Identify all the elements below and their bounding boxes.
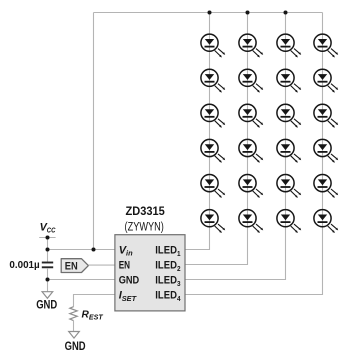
wire EN flag to U1 EN pin [88,264,115,266]
wire Vin node down to capacitor [47,250,49,262]
IC U1 ZD3315 body [115,235,185,311]
input flag EN [61,259,88,273]
wire GND node down to ground [47,280,49,292]
wire resistor to ground [73,321,75,332]
svg-text:ILED3: ILED3 [155,275,180,288]
wire LED column 4 to ILED4 [185,13,323,295]
junction dot at VCC bar [46,236,50,240]
LED column 2 row 5 [239,175,263,198]
wire LED column 2 to ILED2 [185,13,248,265]
svg-text:ILED1: ILED1 [155,244,180,257]
LED column 3 row 5 [277,175,301,198]
junction column 1 top [208,11,212,15]
LED column 1 row 2 [201,69,225,92]
svg-text:GND: GND [119,275,140,287]
LED column 4 row 2 [314,69,338,92]
LED column 3 row 4 [277,139,301,162]
LED column 4 row 3 [314,104,338,127]
svg-text:VCC: VCC [40,221,56,234]
LED column 3 row 3 [277,104,301,127]
wire left vertical bus [93,13,95,250]
svg-text:GND: GND [65,340,86,353]
capacitor C1 0.001u [42,263,53,268]
wire GND node to U1 GND pin [48,279,115,281]
LED column 2 row 1 [239,34,263,57]
junction dot left bus on Vin wire [92,248,96,252]
LED column 1 row 6 [201,210,225,233]
LED column 3 row 1 [277,34,301,57]
junction dot Vin node [46,248,50,252]
wire top supply bus [94,12,323,14]
svg-text:REST: REST [82,310,104,322]
LED column 2 row 2 [239,69,263,92]
svg-text:ZD3315: ZD3315 [126,204,165,218]
junction column 2 top [246,11,250,15]
LED column 1 row 3 [201,104,225,127]
svg-text:EN: EN [119,260,130,272]
LED column 4 row 1 [314,34,338,57]
svg-text:0.001µ: 0.001µ [9,260,39,271]
LED column 3 row 6 [277,210,301,233]
LED column 3 row 2 [277,69,301,92]
svg-text:GND: GND [36,299,57,312]
wire U1 ISET pin to resistor [74,295,115,307]
ground symbol GND1 [42,292,53,299]
wire LED column 3 to ILED3 [185,13,286,280]
ground symbol GND2 [69,332,80,339]
svg-text:(ZYWYN): (ZYWYN) [125,220,164,234]
wire LED column 1 to ILED1 [185,13,210,250]
wire VCC down to Vin node [47,238,49,250]
junction column 3 top [284,11,288,15]
LED column 2 row 6 [239,210,263,233]
wire capacitor to GND node [47,268,49,280]
svg-text:EN: EN [65,260,78,272]
LED column 2 row 4 [239,139,263,162]
resistor REST [70,307,77,321]
LED column 1 row 4 [201,139,225,162]
LED column 4 row 4 [314,139,338,162]
LED column 4 row 5 [314,175,338,198]
VCC terminal bar [39,237,55,239]
LED column 4 row 6 [314,210,338,233]
junction dot GND node [46,278,50,282]
LED column 2 row 3 [239,104,263,127]
wire Vin node to U1 Vin pin [48,249,115,251]
LED column 1 row 5 [201,175,225,198]
svg-text:ILED2: ILED2 [155,260,180,273]
LED column 1 row 1 [201,34,225,57]
